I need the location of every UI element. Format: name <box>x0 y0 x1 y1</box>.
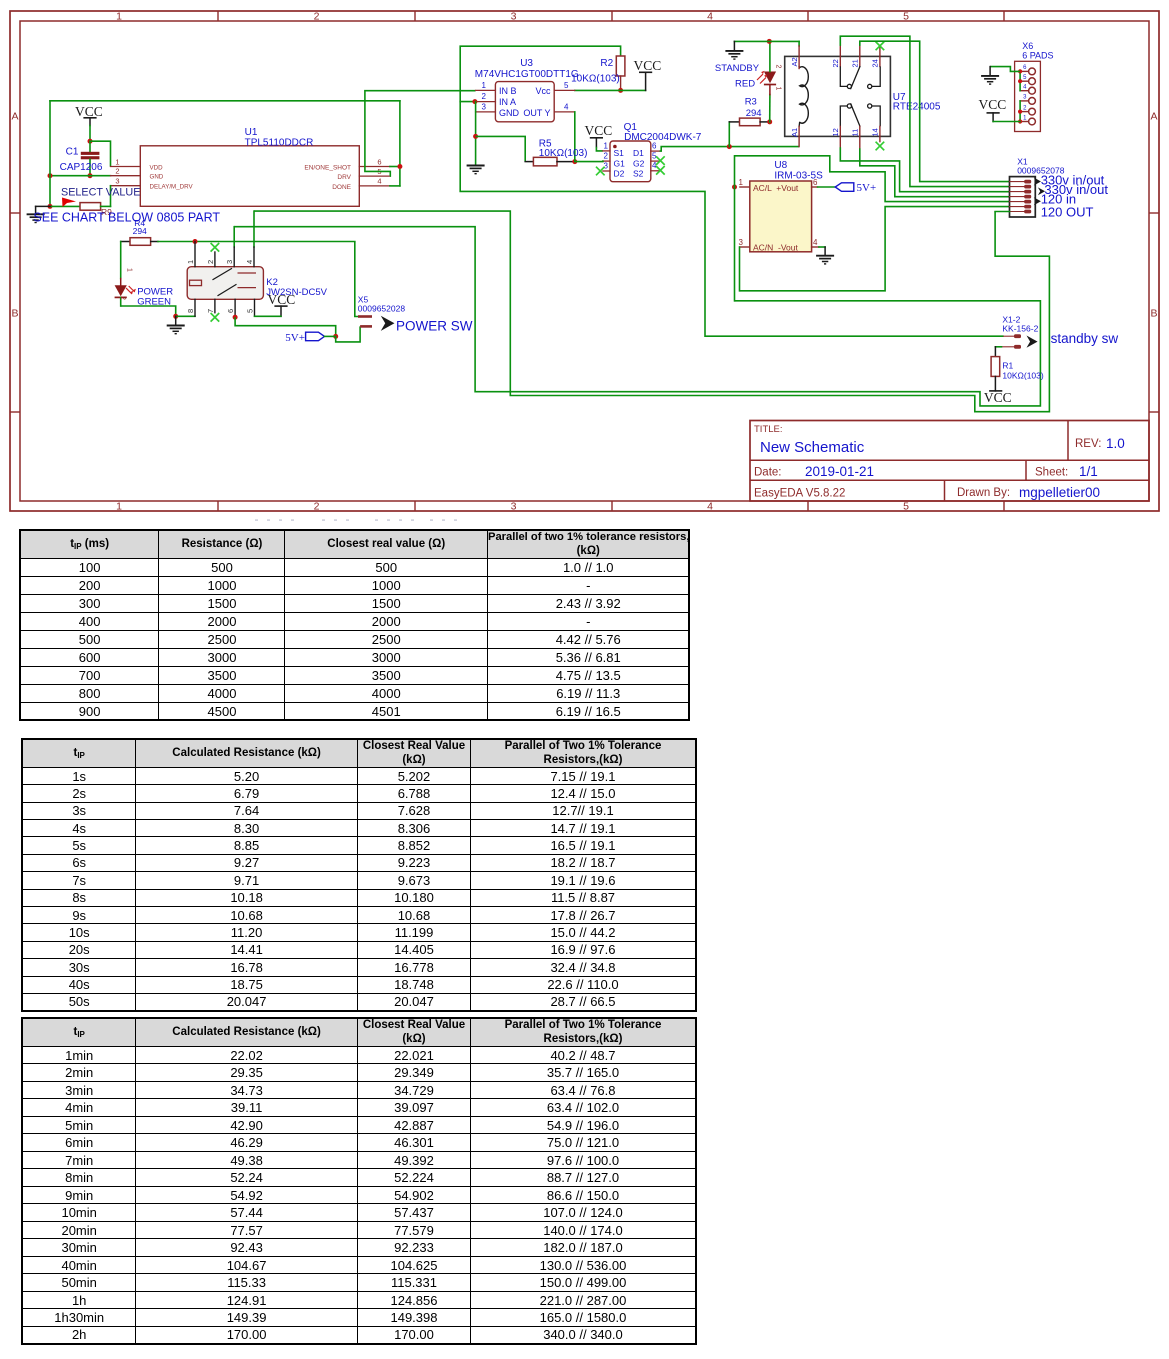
svg-text:VDD: VDD <box>150 164 164 171</box>
svg-text:1: 1 <box>116 11 122 23</box>
svg-text:CAP1206: CAP1206 <box>60 162 103 173</box>
svg-text:A1: A1 <box>790 128 799 137</box>
svg-text:2: 2 <box>774 65 781 69</box>
svg-text:KK-156-2: KK-156-2 <box>1002 323 1038 333</box>
svg-text:Date:: Date: <box>754 467 782 479</box>
svg-text:294: 294 <box>746 108 762 119</box>
svg-text:GND: GND <box>499 108 520 118</box>
svg-text:TITLE:: TITLE: <box>754 424 783 435</box>
svg-text:RTE24005: RTE24005 <box>893 102 941 113</box>
svg-text:120 OUT: 120 OUT <box>1041 204 1094 219</box>
svg-text:OUT Y: OUT Y <box>523 108 550 118</box>
svg-text:1: 1 <box>739 178 744 187</box>
svg-text:3: 3 <box>225 260 234 264</box>
svg-text:C1: C1 <box>66 147 79 158</box>
svg-text:10KΩ(103): 10KΩ(103) <box>539 148 588 159</box>
svg-text:Sheet:: Sheet: <box>1035 467 1068 479</box>
svg-text:14: 14 <box>871 128 880 136</box>
svg-text:VCC: VCC <box>984 390 1012 405</box>
svg-text:DMC2004DWK-7: DMC2004DWK-7 <box>624 132 702 143</box>
svg-text:11: 11 <box>851 129 860 137</box>
svg-text:U8: U8 <box>774 160 787 171</box>
svg-text:VCC: VCC <box>634 58 662 73</box>
svg-text:DELAY/M_DRV: DELAY/M_DRV <box>150 184 194 191</box>
svg-text:2019-01-21: 2019-01-21 <box>805 464 874 479</box>
svg-text:3: 3 <box>511 11 517 23</box>
svg-text:D2: D2 <box>614 168 625 178</box>
svg-text:6 PADS: 6 PADS <box>1022 51 1053 61</box>
svg-text:1: 1 <box>126 268 133 272</box>
svg-text:5: 5 <box>246 309 255 313</box>
svg-text:2: 2 <box>206 260 215 264</box>
svg-text:294: 294 <box>133 226 147 236</box>
svg-text:G1: G1 <box>614 158 626 168</box>
svg-text:R2: R2 <box>600 58 613 69</box>
svg-text:4: 4 <box>707 501 713 513</box>
svg-text:B: B <box>11 308 18 320</box>
svg-text:5: 5 <box>564 81 569 90</box>
svg-text:DRV: DRV <box>337 174 351 181</box>
svg-text:4: 4 <box>652 161 657 170</box>
svg-text:12: 12 <box>831 128 840 136</box>
svg-text:4: 4 <box>564 102 569 111</box>
svg-text:7: 7 <box>206 309 215 313</box>
svg-text:IN B: IN B <box>499 86 517 96</box>
svg-text:6: 6 <box>813 178 818 187</box>
svg-text:VCC: VCC <box>268 292 296 307</box>
svg-text:2: 2 <box>314 11 320 23</box>
svg-text:A: A <box>11 111 18 123</box>
svg-text:1.0: 1.0 <box>1106 436 1125 451</box>
svg-text:SEE CHART BELOW 0805 PART: SEE CHART BELOW 0805 PART <box>33 211 220 225</box>
svg-text:REV:: REV: <box>1075 438 1101 450</box>
svg-text:TPL5110DDCR: TPL5110DDCR <box>245 137 314 148</box>
svg-text:1: 1 <box>186 260 195 264</box>
svg-text:2: 2 <box>314 501 320 513</box>
svg-text:A2: A2 <box>790 57 799 66</box>
svg-text:1: 1 <box>115 157 119 166</box>
svg-text:standby sw: standby sw <box>1051 331 1119 346</box>
svg-text:AC/N -Vout: AC/N -Vout <box>753 242 799 252</box>
svg-text:4: 4 <box>813 238 818 247</box>
svg-text:1: 1 <box>604 141 609 150</box>
svg-text:3: 3 <box>739 238 744 247</box>
svg-text:mgpelletier00: mgpelletier00 <box>1019 485 1100 500</box>
svg-text:B: B <box>1150 308 1157 320</box>
svg-text:3: 3 <box>511 501 517 513</box>
svg-text:New Schematic: New Schematic <box>760 439 865 456</box>
svg-text:S2: S2 <box>633 168 644 178</box>
svg-text:4: 4 <box>377 177 381 186</box>
svg-text:EN/ONE_SHOT: EN/ONE_SHOT <box>304 164 351 171</box>
svg-text:5V+: 5V+ <box>285 332 305 344</box>
svg-text:A: A <box>1150 111 1157 123</box>
svg-text:3: 3 <box>115 177 119 186</box>
svg-text:5: 5 <box>903 11 909 23</box>
svg-text:2: 2 <box>482 92 487 101</box>
svg-text:0009652028: 0009652028 <box>358 303 406 313</box>
svg-text:2: 2 <box>115 167 119 176</box>
svg-text:Drawn By:: Drawn By: <box>957 487 1010 499</box>
svg-text:1: 1 <box>482 81 487 90</box>
svg-text:21: 21 <box>851 59 860 67</box>
svg-text:AC/L +Vout: AC/L +Vout <box>753 183 799 193</box>
svg-text:4: 4 <box>707 11 713 23</box>
svg-text:2: 2 <box>604 152 609 161</box>
svg-text:22: 22 <box>831 59 840 67</box>
svg-text:6: 6 <box>226 309 235 313</box>
svg-text:VCC: VCC <box>75 104 103 119</box>
svg-text:1/1: 1/1 <box>1079 464 1098 479</box>
svg-text:DONE: DONE <box>332 184 351 191</box>
svg-text:IN A: IN A <box>499 97 516 107</box>
svg-text:GND: GND <box>150 174 164 181</box>
svg-text:S1: S1 <box>614 148 625 158</box>
svg-text:EasyEDA V5.8.22: EasyEDA V5.8.22 <box>754 488 845 500</box>
svg-text:Vcc: Vcc <box>535 86 551 96</box>
svg-text:VCC: VCC <box>585 123 613 138</box>
svg-text:8: 8 <box>186 309 195 313</box>
svg-text:3: 3 <box>482 102 487 111</box>
svg-text:5: 5 <box>903 501 909 513</box>
svg-text:6: 6 <box>652 142 657 151</box>
svg-text:U3: U3 <box>520 58 533 69</box>
svg-text:1: 1 <box>774 87 781 91</box>
svg-text:1: 1 <box>116 501 122 513</box>
svg-text:5V+: 5V+ <box>857 182 877 194</box>
svg-text:RED: RED <box>735 78 755 89</box>
svg-text:10KΩ(103): 10KΩ(103) <box>1002 371 1043 381</box>
svg-text:D1: D1 <box>633 148 644 158</box>
svg-text:X6: X6 <box>1022 41 1033 51</box>
svg-text:3: 3 <box>604 161 609 170</box>
svg-text:M74VHC1GT00DTT1G: M74VHC1GT00DTT1G <box>475 69 579 80</box>
svg-text:POWER SW: POWER SW <box>396 318 473 333</box>
svg-text:R3: R3 <box>745 96 757 107</box>
svg-text:6: 6 <box>377 157 381 166</box>
svg-text:SELECT VALUE: SELECT VALUE <box>61 186 140 198</box>
svg-text:4: 4 <box>245 260 254 264</box>
svg-text:5: 5 <box>652 152 657 161</box>
svg-text:R1: R1 <box>1002 360 1013 370</box>
svg-text:G2: G2 <box>633 158 645 168</box>
svg-text:VCC: VCC <box>979 97 1007 112</box>
svg-text:2: 2 <box>119 296 126 300</box>
svg-text:STANDBY: STANDBY <box>715 63 760 74</box>
svg-text:24: 24 <box>871 59 880 67</box>
